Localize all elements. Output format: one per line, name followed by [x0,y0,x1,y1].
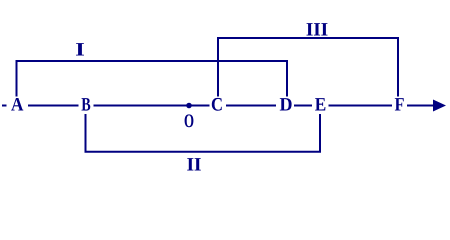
wire axis dash left of A [2,105,7,107]
bracket interval II from B to E [86,114,321,152]
wire axis segment F-arrow [407,105,436,107]
node D label [280,98,292,110]
label interval II [187,158,201,170]
arrowhead [433,100,446,112]
label interval I [76,43,84,55]
node O dot [186,103,192,109]
wire axis segment B-C [94,105,210,107]
node E label [315,98,325,110]
node O label [185,114,194,127]
wire axis segment D-E [294,105,312,107]
wire axis segment A-B [28,105,79,107]
label interval III [307,23,328,35]
bracket interval III from C to F [218,38,398,97]
node B label [82,98,91,111]
node C label [212,98,222,111]
bracket interval I from A to D [17,61,288,97]
wire axis segment E-F [329,105,393,107]
wire axis segment C-D [226,105,276,107]
node A label [11,98,23,111]
node F label [395,98,404,110]
